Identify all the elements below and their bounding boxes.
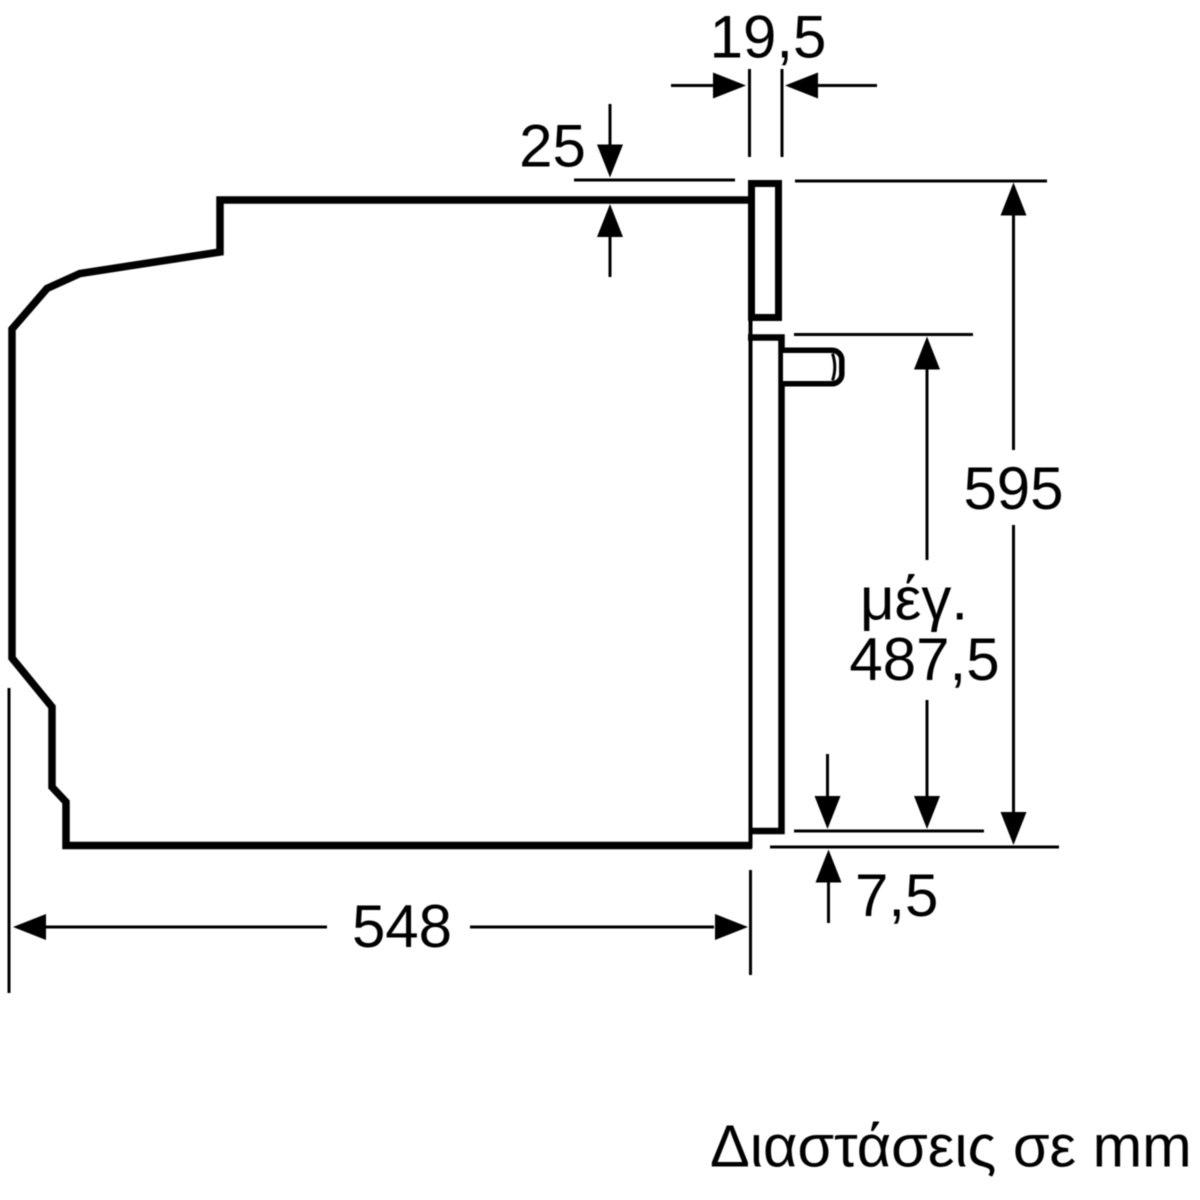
door handle	[783, 350, 842, 384]
extension line: 19,5 left	[748, 69, 751, 157]
dim 487,5 line bottom arrow	[926, 700, 929, 797]
extension line: 19,5 right	[781, 69, 784, 157]
svg-text:548: 548	[352, 893, 452, 960]
dim 595 line bottom arrow	[1012, 525, 1015, 813]
oven door outline	[748, 338, 782, 832]
oven body front vertical line	[749, 200, 753, 848]
oven body outline	[12, 200, 752, 846]
extension line: 548 left	[8, 688, 11, 993]
extension line: fascia top right (595 dim)	[795, 180, 1047, 183]
svg-text:595: 595	[963, 455, 1063, 522]
svg-text:μέγ.: μέγ.	[860, 566, 968, 633]
extension line: door top (487,5 dim)	[794, 333, 973, 336]
dim 548 right arrow	[470, 926, 714, 929]
dim 19,5 right arrow	[785, 73, 818, 99]
dim 19,5 left arrow	[671, 84, 714, 87]
dim 25 bottom arrow	[597, 204, 623, 237]
svg-text:19,5: 19,5	[710, 4, 827, 71]
dim 595 line top arrow	[1001, 183, 1027, 216]
svg-text:7,5: 7,5	[855, 862, 938, 929]
extension line: body bottom (595 / 7,5 dims)	[770, 846, 1059, 849]
dim 7,5 upper arrow	[826, 754, 829, 798]
dim 25 top arrow	[609, 104, 612, 146]
extension line: 548 right	[749, 870, 752, 975]
extension line: fascia top left (25 dim)	[574, 179, 735, 182]
dim 7,5 lower arrow	[816, 850, 842, 883]
svg-text:Διαστάσεις σε mm: Διαστάσεις σε mm	[710, 1113, 1192, 1180]
control fascia rectangle	[752, 184, 779, 318]
svg-text:487,5: 487,5	[849, 626, 999, 693]
svg-text:25: 25	[519, 113, 586, 180]
dim 487,5 line top arrow	[914, 337, 940, 370]
extension line: door bottom open (7,5 dim upper)	[794, 830, 984, 833]
dim 548 left arrow	[13, 914, 46, 940]
handle inner line	[833, 354, 835, 381]
